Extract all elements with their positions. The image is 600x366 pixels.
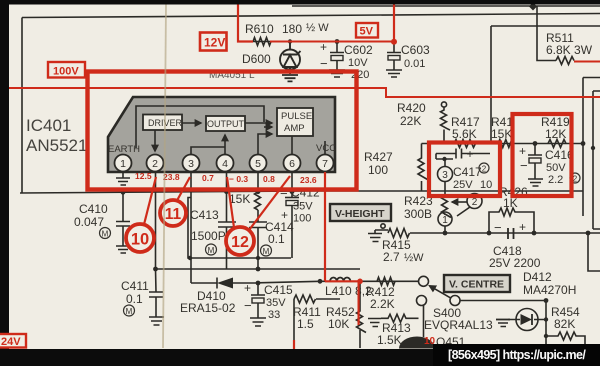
IC401 body xyxy=(108,97,335,172)
svg-text:5.6K: 5.6K xyxy=(452,127,477,141)
ground pin1 xyxy=(116,172,130,186)
svg-text:0.1: 0.1 xyxy=(268,232,285,246)
svg-text:15K: 15K xyxy=(491,127,512,141)
resistor R610 xyxy=(253,38,271,46)
svg-text:C410: C410 xyxy=(79,202,108,216)
wire right edge box xyxy=(583,78,600,217)
node circled 1 pot xyxy=(438,212,452,233)
wire ground bus horizontal xyxy=(20,191,583,193)
svg-text:7: 7 xyxy=(322,158,328,170)
svg-text:1: 1 xyxy=(442,215,448,226)
label V-HEIGHT xyxy=(330,204,391,221)
label PULSE AMP xyxy=(281,111,312,134)
svg-text:C415: C415 xyxy=(264,283,293,297)
node D412 top xyxy=(544,298,549,303)
wire driver to pin2 xyxy=(154,130,156,151)
svg-text:−: − xyxy=(446,146,454,161)
pin 3 xyxy=(183,155,200,172)
svg-text:C603: C603 xyxy=(401,43,430,57)
label pin voltage 12.5 xyxy=(135,171,152,181)
svg-text:11: 11 xyxy=(165,206,182,223)
svg-text:10V: 10V xyxy=(348,57,368,69)
node L410 left xyxy=(318,279,323,284)
svg-text:0.01: 0.01 xyxy=(404,58,425,70)
capacitor C603 xyxy=(387,42,401,70)
node D410 right xyxy=(256,281,261,286)
label C410 xyxy=(74,202,108,229)
capacitor C602 xyxy=(330,42,344,71)
svg-text:2: 2 xyxy=(472,197,478,208)
resistor R511 xyxy=(556,57,574,65)
wire pin7 down xyxy=(324,172,326,282)
svg-text:35V: 35V xyxy=(266,297,286,309)
svg-text:+: + xyxy=(519,144,526,158)
svg-text:IC401: IC401 xyxy=(26,116,71,135)
svg-text:V-HEIGHT: V-HEIGHT xyxy=(335,208,385,220)
wire R417 bus xyxy=(422,143,584,145)
pin 5 xyxy=(250,155,267,172)
fold line xyxy=(163,4,166,348)
svg-text:5: 5 xyxy=(255,158,261,170)
label circled 2 pot xyxy=(472,197,478,208)
label VCC xyxy=(316,143,336,154)
pin 4 xyxy=(217,155,234,172)
svg-text:OUTPUT: OUTPUT xyxy=(207,119,245,129)
wire 5V bus xyxy=(240,41,394,43)
label pin voltage -0.3 xyxy=(229,174,248,184)
svg-text:35V: 35V xyxy=(293,201,313,213)
svg-text:24V: 24V xyxy=(1,336,21,348)
svg-text:15K: 15K xyxy=(229,192,250,206)
node pin6 bus xyxy=(290,189,295,194)
ground D412 xyxy=(496,320,510,327)
capacitor C412 xyxy=(285,198,299,259)
node R452 tap xyxy=(358,279,363,284)
potentiometer R423 xyxy=(442,191,452,218)
wire pin2 down xyxy=(155,172,158,293)
svg-text:V. CENTRE: V. CENTRE xyxy=(449,279,504,291)
resistor R426 xyxy=(489,208,534,233)
resistor R413 xyxy=(381,314,419,322)
svg-text:10K: 10K xyxy=(328,317,349,331)
ground C416 xyxy=(528,179,543,186)
wire 100V red bus xyxy=(0,88,600,97)
marker M C410 xyxy=(100,228,111,239)
svg-text:−: − xyxy=(494,220,502,235)
ground C603 xyxy=(386,70,402,77)
resistor R420 xyxy=(441,102,451,144)
resistor R454 xyxy=(546,332,585,348)
svg-text:C417: C417 xyxy=(453,165,482,179)
wire C413 loop xyxy=(188,198,291,259)
svg-text:C413: C413 xyxy=(190,208,219,222)
label R419 xyxy=(541,115,570,141)
resistor R410 xyxy=(255,192,261,222)
inductor L410 xyxy=(330,278,350,282)
svg-text:3: 3 xyxy=(188,158,194,170)
label R610 value xyxy=(245,22,329,36)
svg-text:0.8: 0.8 xyxy=(263,174,275,184)
wire D412 vertical xyxy=(545,301,547,349)
node circled 12 xyxy=(226,176,290,255)
svg-text:R420: R420 xyxy=(397,101,426,115)
op-amp U1 driver box xyxy=(143,115,182,131)
svg-text:R610: R610 xyxy=(245,22,274,36)
node C602 top xyxy=(335,39,340,44)
svg-text:0.047: 0.047 xyxy=(74,215,104,229)
label R412 xyxy=(366,285,395,311)
svg-text:4: 4 xyxy=(222,158,228,170)
svg-text:EARTH: EARTH xyxy=(108,144,140,155)
switch S400 xyxy=(417,276,461,305)
label R416 xyxy=(491,115,513,141)
ground R413 xyxy=(368,318,381,327)
transistor Q451 xyxy=(399,337,435,349)
svg-text:+: + xyxy=(244,281,251,295)
svg-text:AN5521: AN5521 xyxy=(26,136,87,155)
svg-text:R427: R427 xyxy=(364,150,393,164)
svg-text:VCC: VCC xyxy=(316,143,336,154)
label S400 xyxy=(424,306,493,332)
diode D600 xyxy=(280,42,301,75)
node D600 top xyxy=(288,39,292,43)
label R417 xyxy=(451,115,480,141)
svg-text:2: 2 xyxy=(482,165,487,174)
wire diode line right xyxy=(258,281,418,283)
wire frame top xyxy=(22,14,600,18)
label R454 xyxy=(551,305,580,331)
svg-text:½W: ½W xyxy=(404,252,424,264)
svg-text:[856x495] https://upic.me/: [856x495] https://upic.me/ xyxy=(448,348,586,362)
wire driver to output xyxy=(182,122,201,124)
label L410 xyxy=(325,284,372,298)
label DRIVER xyxy=(148,118,183,128)
diode D410 xyxy=(191,278,258,289)
label pin voltage 23.8 xyxy=(163,172,180,182)
svg-text:MA4270H: MA4270H xyxy=(523,283,576,297)
wire right box top xyxy=(491,26,600,143)
label pin voltage 0.8 xyxy=(263,174,275,184)
resistor R417 xyxy=(454,140,476,148)
label OUTPUT xyxy=(207,119,245,129)
node 100V label xyxy=(48,62,85,78)
wire pin6 internal xyxy=(291,136,293,154)
node circled 11 xyxy=(160,177,190,226)
svg-text:10: 10 xyxy=(480,179,492,191)
wire R411 down xyxy=(293,299,295,348)
marker Z C417 xyxy=(479,163,489,174)
node C416 annotation box xyxy=(513,114,572,196)
svg-text:25V 2200: 25V 2200 xyxy=(489,256,541,270)
pin 6 xyxy=(284,155,301,172)
svg-text:AMP: AMP xyxy=(284,123,305,134)
svg-text:2: 2 xyxy=(152,158,158,170)
node 24V label xyxy=(0,334,26,348)
svg-text:6: 6 xyxy=(289,158,295,170)
label C418 xyxy=(489,220,541,270)
label C415 xyxy=(244,281,293,321)
svg-text:2.2K: 2.2K xyxy=(370,297,395,311)
node pin2 line lower xyxy=(153,267,158,272)
resistor R415 xyxy=(375,229,445,238)
wire C418 line xyxy=(445,232,600,234)
node C415 tap xyxy=(256,267,261,272)
label D10 red xyxy=(424,336,436,347)
ground C410 xyxy=(116,246,130,253)
svg-text:5V: 5V xyxy=(360,26,374,38)
svg-text:+: + xyxy=(467,147,474,161)
ground C415 xyxy=(250,318,266,326)
svg-text:+: + xyxy=(519,220,526,234)
svg-text:82K: 82K xyxy=(554,317,575,331)
node C414 lower xyxy=(256,256,260,260)
wire VCC red trace xyxy=(325,172,363,325)
ground C602 xyxy=(329,70,345,77)
label R415 xyxy=(382,238,424,264)
wire pin4 internal xyxy=(224,135,226,154)
wire pin7 internal xyxy=(324,141,326,154)
label pin numbers xyxy=(120,158,328,170)
label D412 xyxy=(523,270,576,297)
svg-text:3: 3 xyxy=(442,170,448,181)
node C417 annotation box xyxy=(429,143,500,197)
node R423 bottom xyxy=(443,231,448,236)
node R419 right xyxy=(581,141,586,146)
label EARTH xyxy=(108,144,140,155)
capacitor C415 xyxy=(251,283,265,318)
svg-text:10: 10 xyxy=(131,231,149,249)
node circled 10 xyxy=(126,177,156,252)
node D412 xyxy=(544,317,548,338)
resistor R411 xyxy=(294,295,340,303)
label R411 xyxy=(293,305,321,331)
wiper R423 xyxy=(452,201,467,203)
wire pin3 internal xyxy=(191,147,225,154)
svg-text:0.1: 0.1 xyxy=(126,292,143,306)
svg-text:33: 33 xyxy=(268,309,280,321)
svg-text:½ W: ½ W xyxy=(306,22,329,34)
svg-text:M: M xyxy=(126,307,133,316)
label R426 xyxy=(499,185,528,210)
wire pin3 down xyxy=(190,172,192,284)
scan border left xyxy=(0,0,9,349)
resistor R452 xyxy=(357,281,367,348)
marker M C411 xyxy=(124,305,135,316)
resistor R416 xyxy=(498,140,514,148)
svg-text:12K: 12K xyxy=(545,127,566,141)
svg-text:22K: 22K xyxy=(400,114,421,128)
svg-text:−: − xyxy=(244,298,252,313)
wire frame left xyxy=(21,18,23,194)
svg-text:−: − xyxy=(520,158,528,173)
label Q451 xyxy=(436,335,466,349)
svg-text:100: 100 xyxy=(293,213,311,225)
wire pin4 down xyxy=(226,172,228,270)
wire right edge lower xyxy=(588,233,600,271)
pin 1 xyxy=(115,155,132,172)
svg-text:PULSE: PULSE xyxy=(281,111,312,122)
capacitor C418 xyxy=(503,228,519,239)
test point R415 xyxy=(381,224,385,228)
wire 12V red feed xyxy=(238,0,394,42)
svg-text:M: M xyxy=(263,247,270,256)
node IC annotation box xyxy=(88,72,357,190)
svg-text:ERA15-02: ERA15-02 xyxy=(180,301,236,315)
node 5V label xyxy=(356,23,378,38)
svg-text:50V: 50V xyxy=(546,162,566,174)
op-amp U1 output box xyxy=(206,116,245,131)
label R420 xyxy=(397,101,426,128)
label pin voltage 23.6 xyxy=(300,175,317,185)
svg-text:1500P: 1500P xyxy=(191,229,226,243)
svg-text:M: M xyxy=(102,230,109,239)
wire pin5 down xyxy=(257,172,259,193)
svg-text:EVQR4AL13: EVQR4AL13 xyxy=(424,318,493,332)
label C411 xyxy=(121,279,149,306)
capacitor C416 xyxy=(528,144,542,180)
wire switch to D412 xyxy=(460,300,546,302)
node pin5 bus xyxy=(256,189,261,194)
svg-text:+: + xyxy=(281,208,288,222)
svg-text:180: 180 xyxy=(282,22,302,36)
label R427 xyxy=(364,150,393,177)
node C418 far right xyxy=(586,231,591,236)
node top bus junction xyxy=(529,3,537,11)
pin 2 xyxy=(147,155,164,172)
capacitor C411 xyxy=(149,292,163,317)
svg-text:C411: C411 xyxy=(121,279,149,293)
svg-text:12.5: 12.5 xyxy=(135,171,152,181)
label D600 xyxy=(209,52,271,81)
wire Q451 red trace xyxy=(293,340,295,349)
svg-text:1K: 1K xyxy=(503,196,518,210)
wire 5V red feed xyxy=(391,0,397,45)
svg-text:12V: 12V xyxy=(204,36,225,50)
svg-text:6.8K 3W: 6.8K 3W xyxy=(546,43,593,57)
label pin voltage 0.7 xyxy=(202,173,214,183)
node C413 loop left xyxy=(188,256,192,260)
svg-text:12: 12 xyxy=(231,234,249,251)
label C602 xyxy=(320,40,373,81)
svg-text:23.8: 23.8 xyxy=(163,172,180,182)
label C603 xyxy=(401,43,430,70)
label R452 xyxy=(326,305,355,331)
label V CENTRE xyxy=(444,275,510,292)
svg-text:100: 100 xyxy=(368,163,388,177)
node pin4 bus xyxy=(224,189,229,194)
wire pin6 down xyxy=(291,172,293,198)
node C417 xyxy=(436,157,453,161)
wire switch lower left xyxy=(423,306,425,338)
svg-text:1.5: 1.5 xyxy=(297,317,314,331)
node circled 3 xyxy=(438,159,453,191)
label circled 3 xyxy=(442,170,448,181)
wire R511 feed xyxy=(537,6,556,61)
label IC401 xyxy=(26,116,87,155)
ground D600 xyxy=(282,75,298,81)
svg-text:C602: C602 xyxy=(344,43,373,57)
svg-text:25V: 25V xyxy=(453,179,473,191)
node circled 2 pot xyxy=(457,194,482,217)
svg-text:2.7: 2.7 xyxy=(383,250,400,264)
svg-text:L410 8,2: L410 8,2 xyxy=(325,284,372,298)
ground C411 xyxy=(149,317,164,325)
node 12V label xyxy=(200,33,227,51)
svg-text:1: 1 xyxy=(120,158,126,170)
label circled 1 pot xyxy=(442,215,448,226)
resistor R419 xyxy=(548,140,566,148)
svg-text:D412: D412 xyxy=(523,270,552,284)
wire right edge inner xyxy=(593,91,600,229)
capacitor C414 xyxy=(249,222,267,269)
wire top bus upper xyxy=(292,5,600,7)
marker M C413 xyxy=(206,244,217,255)
pin 7 xyxy=(317,155,334,172)
label D410 xyxy=(180,289,236,315)
label C412 xyxy=(280,186,320,225)
label R511 xyxy=(546,31,593,57)
marker M C414 xyxy=(261,245,272,256)
capacitor C417 xyxy=(436,149,490,160)
scan border bottom xyxy=(0,349,600,366)
wire output to pulse amp xyxy=(245,122,272,124)
diode D412 xyxy=(508,309,546,331)
node C418 right xyxy=(532,231,537,236)
marker Z C416 xyxy=(570,173,580,184)
svg-text:0.7: 0.7 xyxy=(202,173,214,183)
wire feedback top xyxy=(136,106,264,148)
resistor R427 xyxy=(418,144,428,192)
svg-text:1.5K: 1.5K xyxy=(377,333,402,347)
ground R415 xyxy=(368,230,382,242)
svg-text:−: − xyxy=(320,56,328,71)
watermark bar xyxy=(433,344,600,366)
node R419 left xyxy=(533,141,538,146)
label R410 xyxy=(229,192,250,206)
label R423 xyxy=(404,194,433,221)
wire pin5 internal xyxy=(258,127,272,154)
label C417 xyxy=(446,146,492,191)
resistor R412 xyxy=(377,277,395,285)
capacitor C410 xyxy=(116,192,130,246)
svg-text:2.2: 2.2 xyxy=(548,174,563,186)
scan border top xyxy=(0,0,600,5)
label C413 xyxy=(190,208,226,243)
svg-text:D600: D600 xyxy=(242,52,271,66)
node C410 tap xyxy=(121,190,126,195)
capacitor C413 xyxy=(218,222,236,227)
svg-text:100V: 100V xyxy=(53,66,79,78)
node right edge xyxy=(591,146,595,150)
label C416 xyxy=(519,144,574,186)
svg-text:− 0.3: − 0.3 xyxy=(229,174,248,184)
wire lower bus xyxy=(156,268,361,270)
wire R511 red out xyxy=(574,61,600,63)
svg-text:M: M xyxy=(208,246,215,255)
node C418 left xyxy=(487,231,492,236)
svg-text:23.6: 23.6 xyxy=(300,175,317,185)
label R413 xyxy=(377,321,411,347)
svg-text:300B: 300B xyxy=(404,207,432,221)
op-amp U1 pulse amp box xyxy=(277,108,313,136)
label C414 xyxy=(265,220,294,246)
